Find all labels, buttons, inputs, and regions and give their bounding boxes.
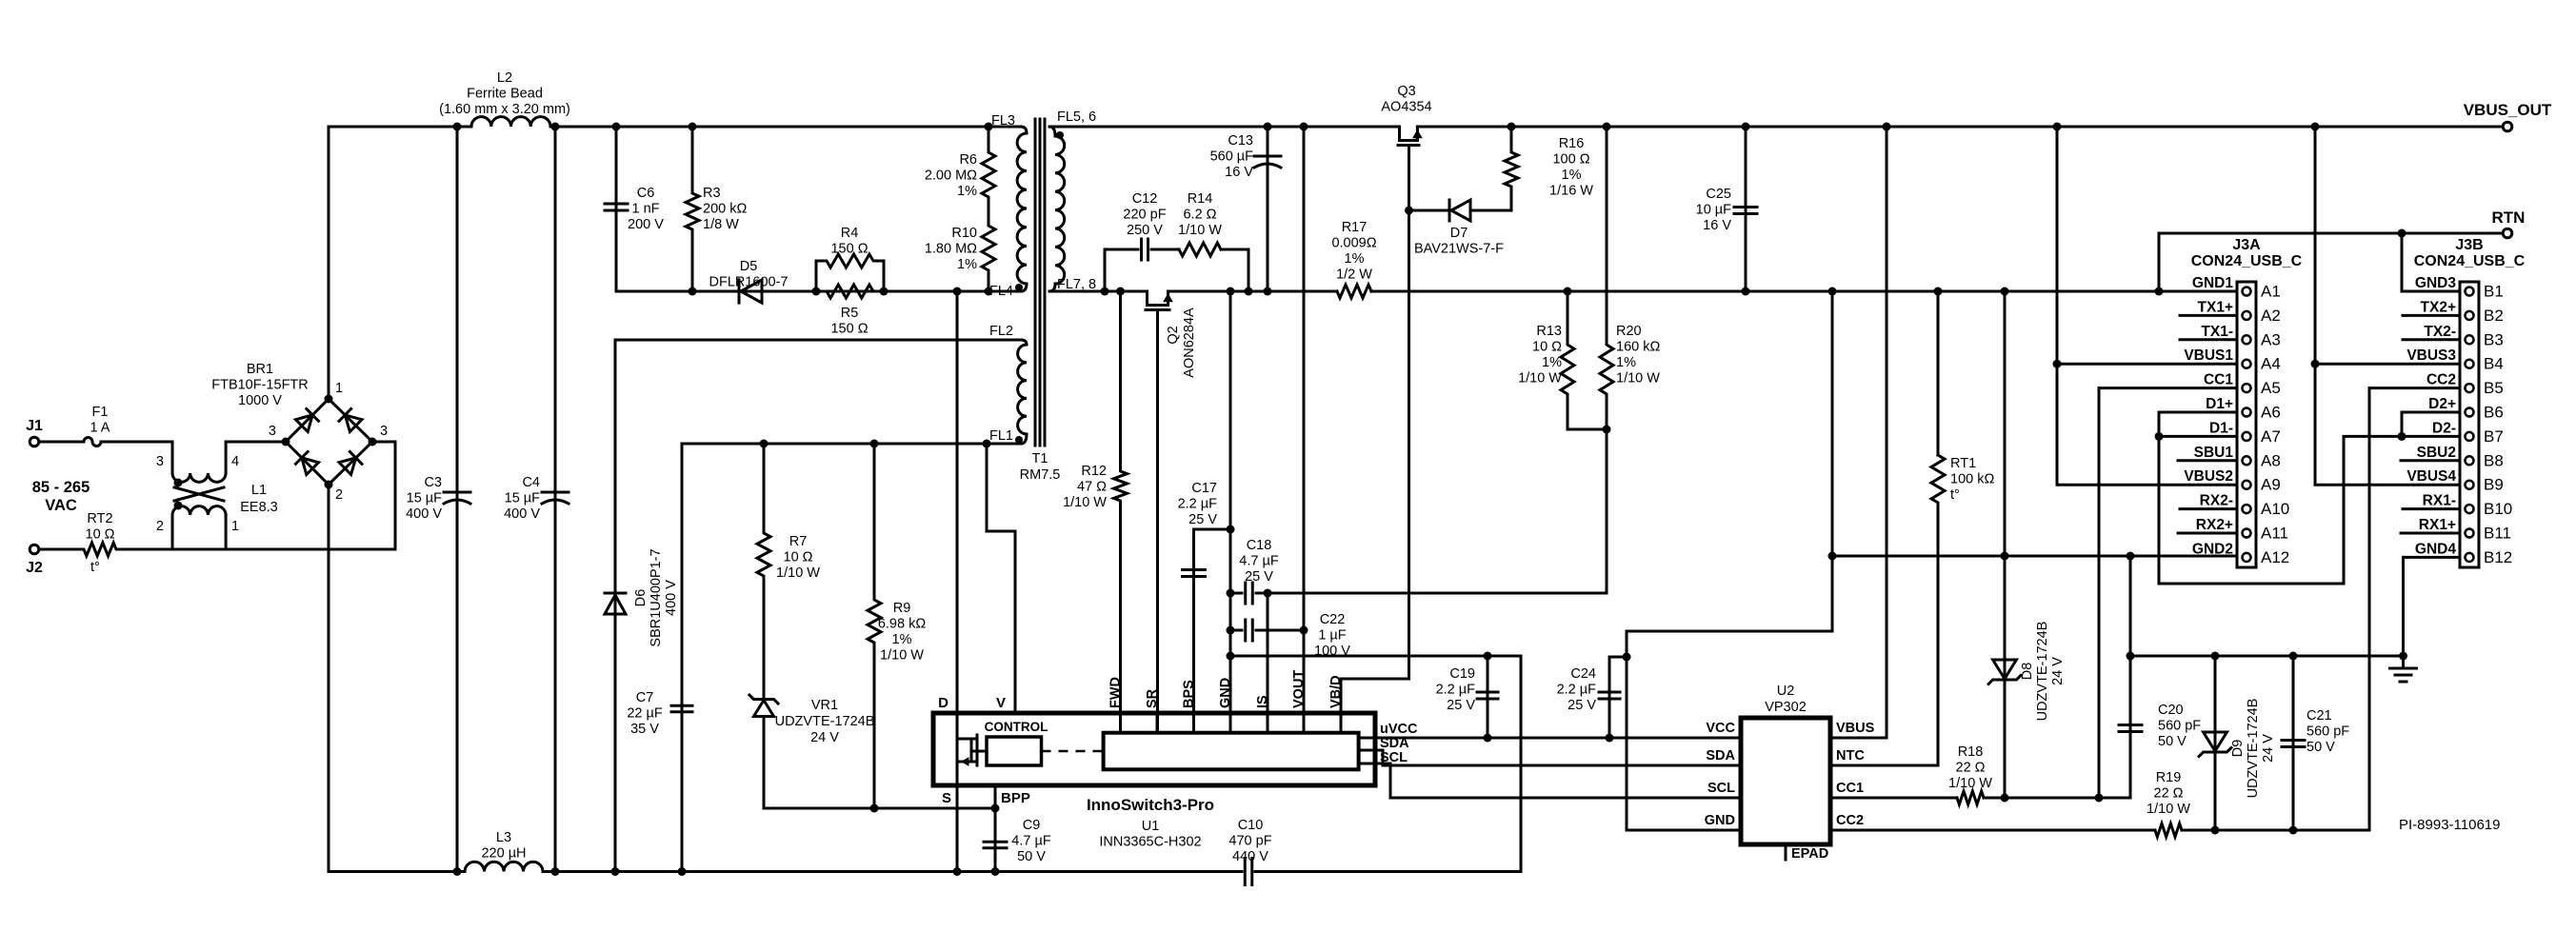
wire CC2 line <box>1830 388 2369 835</box>
svg-text:1%: 1% <box>957 257 977 272</box>
svg-text:T1: T1 <box>1032 451 1048 466</box>
capacitor C12 <box>1101 191 1167 296</box>
wire FL2 line <box>615 339 1021 342</box>
svg-text:C21: C21 <box>2306 708 2332 724</box>
terminal J2 <box>26 545 43 576</box>
wire RTN line <box>2159 229 2502 238</box>
svg-text:EE8.3: EE8.3 <box>240 500 278 515</box>
svg-text:C3: C3 <box>424 475 442 490</box>
svg-text:C13: C13 <box>1228 133 1253 149</box>
svg-text:D9: D9 <box>2230 740 2246 758</box>
svg-text:J3B: J3B <box>2455 237 2483 253</box>
zener VR1 <box>749 695 874 808</box>
capacitor C19 <box>1436 656 1498 743</box>
svg-text:R17: R17 <box>1342 220 1368 235</box>
svg-text:560 µF: 560 µF <box>1210 149 1254 165</box>
svg-text:1%: 1% <box>1616 355 1636 370</box>
svg-text:TX1-: TX1- <box>2201 324 2233 340</box>
svg-text:GND4: GND4 <box>2415 541 2456 557</box>
svg-text:24 V: 24 V <box>2050 657 2066 685</box>
svg-text:25 V: 25 V <box>1568 698 1596 713</box>
svg-text:R12: R12 <box>1081 464 1107 479</box>
svg-text:1 µF: 1 µF <box>1318 628 1346 644</box>
wire GND line A <box>1230 652 1521 661</box>
capacitor C24 <box>1557 657 1620 743</box>
wire FL1 line <box>682 443 1021 446</box>
svg-text:50 V: 50 V <box>2306 740 2335 755</box>
bridge rectifier BR1 <box>211 362 388 503</box>
wire CC2 to B5 <box>2369 387 2460 389</box>
svg-text:FL2: FL2 <box>989 324 1013 339</box>
svg-text:R5: R5 <box>841 306 859 321</box>
svg-text:D2-: D2- <box>2432 420 2456 436</box>
terminal VBUS_OUT <box>2464 101 2552 131</box>
svg-text:10 Ω: 10 Ω <box>86 527 115 543</box>
svg-text:SCL: SCL <box>1380 750 1408 765</box>
svg-text:1 A: 1 A <box>90 421 110 436</box>
svg-text:VBUS: VBUS <box>1836 721 1875 736</box>
svg-text:R7: R7 <box>789 534 808 549</box>
svg-text:16 V: 16 V <box>1703 218 1731 233</box>
svg-text:GND: GND <box>1705 813 1735 828</box>
svg-text:2.2 µF: 2.2 µF <box>1178 497 1218 512</box>
zener D9 <box>2199 652 2276 831</box>
svg-text:24 V: 24 V <box>2261 734 2276 763</box>
diode D5 <box>709 259 788 303</box>
svg-text:U2: U2 <box>1777 684 1795 699</box>
svg-text:RT1: RT1 <box>1950 456 1976 471</box>
svg-text:B6: B6 <box>2484 404 2504 422</box>
svg-text:C19: C19 <box>1449 666 1475 682</box>
resistor R18 <box>1948 744 1992 804</box>
svg-text:A6: A6 <box>2261 404 2281 422</box>
svg-text:C24: C24 <box>1570 666 1596 682</box>
svg-text:Ferrite Bead: Ferrite Bead <box>467 87 543 102</box>
svg-text:AON6284A: AON6284A <box>1182 307 1197 378</box>
svg-text:D1-: D1- <box>2209 420 2233 436</box>
svg-text:1/8 W: 1/8 W <box>703 217 739 232</box>
svg-text:B7: B7 <box>2484 427 2504 446</box>
svg-text:(1.60 mm x 3.20 mm): (1.60 mm x 3.20 mm) <box>439 102 570 117</box>
svg-text:22 µF: 22 µF <box>627 706 663 722</box>
svg-text:560 pF: 560 pF <box>2158 719 2201 734</box>
svg-text:D8: D8 <box>2020 663 2035 681</box>
capacitor C22 <box>1230 612 1350 659</box>
svg-text:A7: A7 <box>2261 427 2281 446</box>
svg-text:50 V: 50 V <box>1017 849 1046 864</box>
svg-text:C25: C25 <box>1706 187 1731 202</box>
wire stub A8 <box>2178 459 2237 462</box>
svg-text:1/10 W: 1/10 W <box>1616 371 1660 387</box>
svg-text:440 V: 440 V <box>1232 849 1268 864</box>
svg-text:FTB10F-15FTR: FTB10F-15FTR <box>211 378 309 393</box>
capacitor C20 <box>2119 703 2201 749</box>
capacitor C6 <box>605 123 664 292</box>
choke L1 <box>156 442 286 549</box>
svg-text:25 V: 25 V <box>1245 569 1273 585</box>
svg-text:RX2+: RX2+ <box>2196 517 2233 533</box>
wire GND2 line <box>1832 552 2237 561</box>
svg-text:A1: A1 <box>2261 283 2281 301</box>
svg-text:t°: t° <box>1950 487 1960 503</box>
label PI number <box>2399 817 2500 833</box>
svg-text:D: D <box>938 695 949 711</box>
svg-text:1/10 W: 1/10 W <box>776 565 820 581</box>
wire BR1 minus riser <box>328 485 330 872</box>
capacitor C13 <box>1210 123 1281 296</box>
svg-text:400 V: 400 V <box>504 506 540 522</box>
wire VBUS3 <box>2311 123 2461 486</box>
svg-text:25 V: 25 V <box>1447 698 1475 713</box>
svg-text:10 Ω: 10 Ω <box>1532 340 1562 355</box>
wire GND4 <box>2404 557 2461 656</box>
svg-text:1%: 1% <box>957 184 977 199</box>
svg-text:1/10 W: 1/10 W <box>2147 802 2190 817</box>
resistor R12 FWD <box>1063 288 1127 734</box>
svg-text:1/10 W: 1/10 W <box>1518 371 1562 387</box>
svg-text:1%: 1% <box>892 632 912 647</box>
svg-text:SCL: SCL <box>1707 781 1735 796</box>
svg-text:C6: C6 <box>637 186 655 201</box>
svg-text:22 Ω: 22 Ω <box>1956 761 1986 776</box>
svg-text:CC1: CC1 <box>1836 781 1864 796</box>
diode D6 <box>605 340 679 876</box>
svg-text:1%: 1% <box>1345 251 1365 267</box>
svg-text:16 V: 16 V <box>1225 165 1253 180</box>
svg-text:560 pF: 560 pF <box>2306 724 2349 740</box>
svg-text:C10: C10 <box>1238 818 1264 833</box>
svg-text:2: 2 <box>335 487 343 503</box>
wire GND riser <box>1227 288 1235 734</box>
svg-text:B12: B12 <box>2484 548 2512 566</box>
resistor R13 <box>1518 288 1574 430</box>
svg-text:R6: R6 <box>959 152 977 168</box>
svg-text:1000 V: 1000 V <box>238 393 282 408</box>
thermistor RT2 <box>40 511 172 575</box>
svg-text:R13: R13 <box>1536 324 1562 339</box>
svg-text:B1: B1 <box>2484 283 2504 301</box>
wire top rail primary <box>329 126 1021 129</box>
svg-text:Q2: Q2 <box>1166 326 1181 344</box>
svg-text:A2: A2 <box>2261 307 2281 325</box>
svg-text:RX1+: RX1+ <box>2419 517 2456 533</box>
IC U1 InnoSwitch3-Pro <box>933 670 1741 850</box>
svg-text:C4: C4 <box>522 475 540 490</box>
resistor R17 inline <box>1331 220 1376 298</box>
svg-text:47 Ω: 47 Ω <box>1077 480 1107 495</box>
svg-text:RT2: RT2 <box>87 511 112 526</box>
svg-text:400 V: 400 V <box>664 580 679 616</box>
svg-text:85 - 265: 85 - 265 <box>32 479 90 496</box>
svg-text:2: 2 <box>156 519 164 534</box>
svg-text:1.80 MΩ: 1.80 MΩ <box>925 242 977 257</box>
svg-text:A10: A10 <box>2261 500 2289 518</box>
wire GND line B <box>2130 655 2404 658</box>
svg-text:PI-8993-110619: PI-8993-110619 <box>2399 817 2500 833</box>
svg-text:6.98 kΩ: 6.98 kΩ <box>878 617 926 632</box>
svg-text:100 Ω: 100 Ω <box>1552 152 1589 168</box>
wire stub B2 <box>2403 314 2460 317</box>
wire stub A10 <box>2180 507 2237 510</box>
zener D8 <box>1988 288 2066 799</box>
capacitor C3 <box>406 123 470 877</box>
svg-text:VAC: VAC <box>45 497 77 514</box>
svg-text:VBUS2: VBUS2 <box>2184 468 2233 485</box>
wire U2 GND <box>1627 829 1741 832</box>
svg-text:UDZVTE-1724B: UDZVTE-1724B <box>775 714 875 729</box>
svg-text:D2+: D2+ <box>2428 396 2456 412</box>
svg-text:50 V: 50 V <box>2158 734 2187 749</box>
wire CC1 line <box>1830 557 2135 803</box>
svg-text:VBUS4: VBUS4 <box>2406 468 2456 485</box>
svg-text:RM7.5: RM7.5 <box>1020 467 1061 483</box>
svg-text:3: 3 <box>156 454 164 469</box>
svg-text:2.2 µF: 2.2 µF <box>1436 683 1476 698</box>
svg-text:L1: L1 <box>251 483 267 498</box>
svg-text:NTC: NTC <box>1836 748 1865 764</box>
svg-text:400 V: 400 V <box>406 506 442 522</box>
svg-text:CON24_USB_C: CON24_USB_C <box>2191 253 2303 269</box>
wire U2 VBUS <box>1830 123 1891 739</box>
svg-text:CC2: CC2 <box>1836 813 1864 828</box>
svg-text:TX2+: TX2+ <box>2421 299 2456 315</box>
svg-text:1%: 1% <box>1562 168 1582 183</box>
resistor R4 <box>812 226 889 296</box>
svg-text:220 pF: 220 pF <box>1123 208 1166 223</box>
svg-text:B5: B5 <box>2484 379 2504 397</box>
wire secondary GND rail <box>1049 290 2237 293</box>
svg-text:R3: R3 <box>703 186 721 201</box>
svg-text:220 µH: 220 µH <box>481 846 526 862</box>
fuse F1 <box>40 405 172 446</box>
svg-text:CON24_USB_C: CON24_USB_C <box>2414 253 2526 269</box>
capacitor C17 BPS <box>1178 481 1230 733</box>
svg-text:B8: B8 <box>2484 451 2504 469</box>
wire stub A2 <box>2180 314 2237 317</box>
svg-text:A4: A4 <box>2261 355 2281 373</box>
svg-text:VBUS3: VBUS3 <box>2406 347 2456 364</box>
wire V branch <box>983 440 1016 714</box>
resistor R5 <box>816 285 884 337</box>
wire U2 NTC <box>1830 764 1938 767</box>
svg-text:A11: A11 <box>2261 525 2288 543</box>
wire RTN riser <box>2155 233 2164 296</box>
svg-text:A3: A3 <box>2261 330 2281 348</box>
resistor R20 <box>1600 123 1660 430</box>
svg-text:R20: R20 <box>1616 324 1642 339</box>
svg-text:1%: 1% <box>1542 355 1562 370</box>
wire stub B11 <box>2401 532 2460 535</box>
capacitor C18 <box>1230 429 1607 604</box>
svg-text:CONTROL: CONTROL <box>985 720 1048 734</box>
terminal RTN <box>2492 208 2526 238</box>
wire D1 net <box>2155 412 2461 584</box>
wire VBD net <box>1341 146 1413 714</box>
svg-text:VBUS_OUT: VBUS_OUT <box>2464 101 2552 119</box>
svg-text:RX2-: RX2- <box>2200 493 2233 509</box>
svg-text:R16: R16 <box>1559 136 1585 151</box>
svg-text:1 nF: 1 nF <box>631 202 659 217</box>
svg-text:R14: R14 <box>1188 191 1213 207</box>
wire stub B10 <box>2403 507 2460 510</box>
svg-text:15 µF: 15 µF <box>505 491 541 506</box>
svg-text:R10: R10 <box>951 226 977 241</box>
wire stub A3 <box>2180 338 2237 341</box>
svg-text:150 Ω: 150 Ω <box>830 322 868 337</box>
svg-text:SBU1: SBU1 <box>2194 445 2234 461</box>
transistor Q3 <box>1381 84 1431 146</box>
svg-text:4: 4 <box>231 454 239 469</box>
resistor R10 <box>925 219 995 296</box>
svg-text:470 pF: 470 pF <box>1228 834 1271 849</box>
svg-text:6.2 Ω: 6.2 Ω <box>1183 208 1216 223</box>
wire stub B8 <box>2401 459 2460 462</box>
svg-text:4.7 µF: 4.7 µF <box>1239 554 1279 569</box>
svg-text:24 V: 24 V <box>810 730 839 745</box>
svg-text:2.00 MΩ: 2.00 MΩ <box>925 169 977 184</box>
svg-text:FL5, 6: FL5, 6 <box>1057 109 1096 125</box>
svg-text:3: 3 <box>269 424 276 439</box>
svg-text:160 kΩ: 160 kΩ <box>1616 340 1660 355</box>
svg-text:INN3365C-H302: INN3365C-H302 <box>1099 835 1201 850</box>
inductor L3 <box>465 830 543 872</box>
wire GND3 <box>2402 233 2460 291</box>
capacitor C7 <box>627 444 692 876</box>
svg-text:FL4: FL4 <box>989 284 1013 299</box>
wire stub A11 <box>2178 532 2237 535</box>
svg-text:C12: C12 <box>1132 191 1158 207</box>
label 85-265 VAC <box>32 479 90 514</box>
svg-text:BAV21WS-7-F: BAV21WS-7-F <box>1414 242 1504 257</box>
resistor R3 <box>686 123 747 296</box>
svg-text:C17: C17 <box>1191 481 1217 496</box>
svg-text:25 V: 25 V <box>1188 512 1217 527</box>
svg-text:S: S <box>942 790 951 806</box>
svg-text:VBUS1: VBUS1 <box>2184 347 2233 364</box>
svg-text:C9: C9 <box>1023 818 1041 833</box>
wire GND2 riser <box>1828 288 1837 632</box>
svg-text:1: 1 <box>335 381 343 396</box>
svg-text:D5: D5 <box>740 259 758 274</box>
resistor R14 <box>1151 191 1253 296</box>
capacitor C10 <box>1228 818 1271 885</box>
svg-text:B10: B10 <box>2484 500 2512 518</box>
wire clamp line <box>616 290 1021 293</box>
svg-text:22 Ω: 22 Ω <box>2154 786 2184 802</box>
svg-text:uVCC: uVCC <box>1380 722 1418 737</box>
wire secondary VBUS rail <box>1049 126 2502 129</box>
terminal J1 <box>26 418 43 446</box>
svg-text:SDA: SDA <box>1706 748 1735 764</box>
IC U2 VP302 <box>1705 684 1875 862</box>
wire IS riser <box>1267 593 1269 733</box>
wire BPP line <box>764 807 995 810</box>
svg-text:1/10 W: 1/10 W <box>1178 223 1222 238</box>
svg-text:CC2: CC2 <box>2426 372 2456 388</box>
ferrite bead L2 <box>439 70 570 127</box>
connector J3B CON24_USB_C <box>2406 237 2525 567</box>
svg-text:1/16 W: 1/16 W <box>1549 184 1593 199</box>
svg-text:FL1: FL1 <box>989 428 1013 444</box>
svg-text:C22: C22 <box>1320 612 1346 627</box>
resistor R7 <box>757 440 820 700</box>
svg-text:J2: J2 <box>26 560 43 576</box>
svg-text:A12: A12 <box>2261 548 2289 566</box>
svg-text:t°: t° <box>90 560 100 575</box>
wire GND2 A12 <box>2129 557 2132 656</box>
svg-text:C18: C18 <box>1247 538 1272 553</box>
svg-text:BR1: BR1 <box>247 362 273 377</box>
svg-text:B3: B3 <box>2484 330 2504 348</box>
svg-text:GND2: GND2 <box>2192 541 2233 557</box>
svg-text:D1+: D1+ <box>2206 396 2233 412</box>
diode D7 <box>1409 188 1512 257</box>
svg-text:GND1: GND1 <box>2192 275 2233 291</box>
svg-text:4.7 µF: 4.7 µF <box>1011 834 1051 849</box>
svg-text:200 kΩ: 200 kΩ <box>703 202 747 217</box>
svg-text:15 µF: 15 µF <box>407 491 443 506</box>
wire bottom rail <box>329 656 1521 872</box>
wire stub B3 <box>2403 338 2460 341</box>
svg-text:R19: R19 <box>2156 770 2182 785</box>
capacitor C21 <box>2282 652 2349 831</box>
svg-text:L3: L3 <box>496 830 511 845</box>
svg-text:B11: B11 <box>2484 525 2511 543</box>
svg-text:2.2 µF: 2.2 µF <box>1557 683 1597 698</box>
svg-text:BPP: BPP <box>1001 790 1030 806</box>
wire GND link <box>1609 631 1832 830</box>
svg-text:TX2-: TX2- <box>2424 324 2456 340</box>
wire VBUS1 <box>2053 123 2238 486</box>
svg-text:3: 3 <box>380 424 388 439</box>
svg-text:GND3: GND3 <box>2415 275 2456 291</box>
svg-text:VCC: VCC <box>1706 721 1735 736</box>
svg-text:Q3: Q3 <box>1397 84 1415 99</box>
svg-text:TX1+: TX1+ <box>2198 299 2233 315</box>
svg-text:SDA: SDA <box>1380 736 1409 751</box>
svg-text:A5: A5 <box>2261 379 2281 397</box>
capacitor C9 <box>984 785 1051 876</box>
svg-text:D6: D6 <box>633 589 649 607</box>
svg-text:B9: B9 <box>2484 476 2504 494</box>
svg-text:FL3: FL3 <box>991 113 1015 129</box>
wire S pin <box>953 785 962 876</box>
svg-text:R4: R4 <box>841 226 859 241</box>
svg-text:R9: R9 <box>893 601 911 616</box>
wire CC1 to A5 <box>2099 388 2237 798</box>
svg-text:250 V: 250 V <box>1127 223 1163 238</box>
resistor R16 <box>1505 123 1593 199</box>
svg-text:200 V: 200 V <box>628 217 664 232</box>
svg-text:100 kΩ: 100 kΩ <box>1950 472 1994 487</box>
svg-text:J3A: J3A <box>2232 237 2261 253</box>
wire D riser <box>953 288 962 714</box>
transformer T1 <box>989 109 1096 483</box>
svg-text:UDZVTE-1724B: UDZVTE-1724B <box>2246 699 2261 799</box>
svg-text:1/10 W: 1/10 W <box>1948 776 1992 791</box>
svg-text:1/2 W: 1/2 W <box>1336 268 1372 283</box>
thermistor RT1 <box>1931 288 1994 766</box>
svg-text:1: 1 <box>231 519 239 534</box>
svg-text:U1: U1 <box>1142 819 1160 834</box>
svg-text:EPAD: EPAD <box>1791 846 1828 862</box>
svg-text:F1: F1 <box>92 405 109 420</box>
svg-text:D7: D7 <box>1450 226 1468 241</box>
svg-text:10 µF: 10 µF <box>1696 203 1732 218</box>
svg-text:RX1-: RX1- <box>2423 493 2456 509</box>
connector J3A CON24_USB_C <box>2184 237 2302 567</box>
svg-text:B2: B2 <box>2484 307 2504 325</box>
